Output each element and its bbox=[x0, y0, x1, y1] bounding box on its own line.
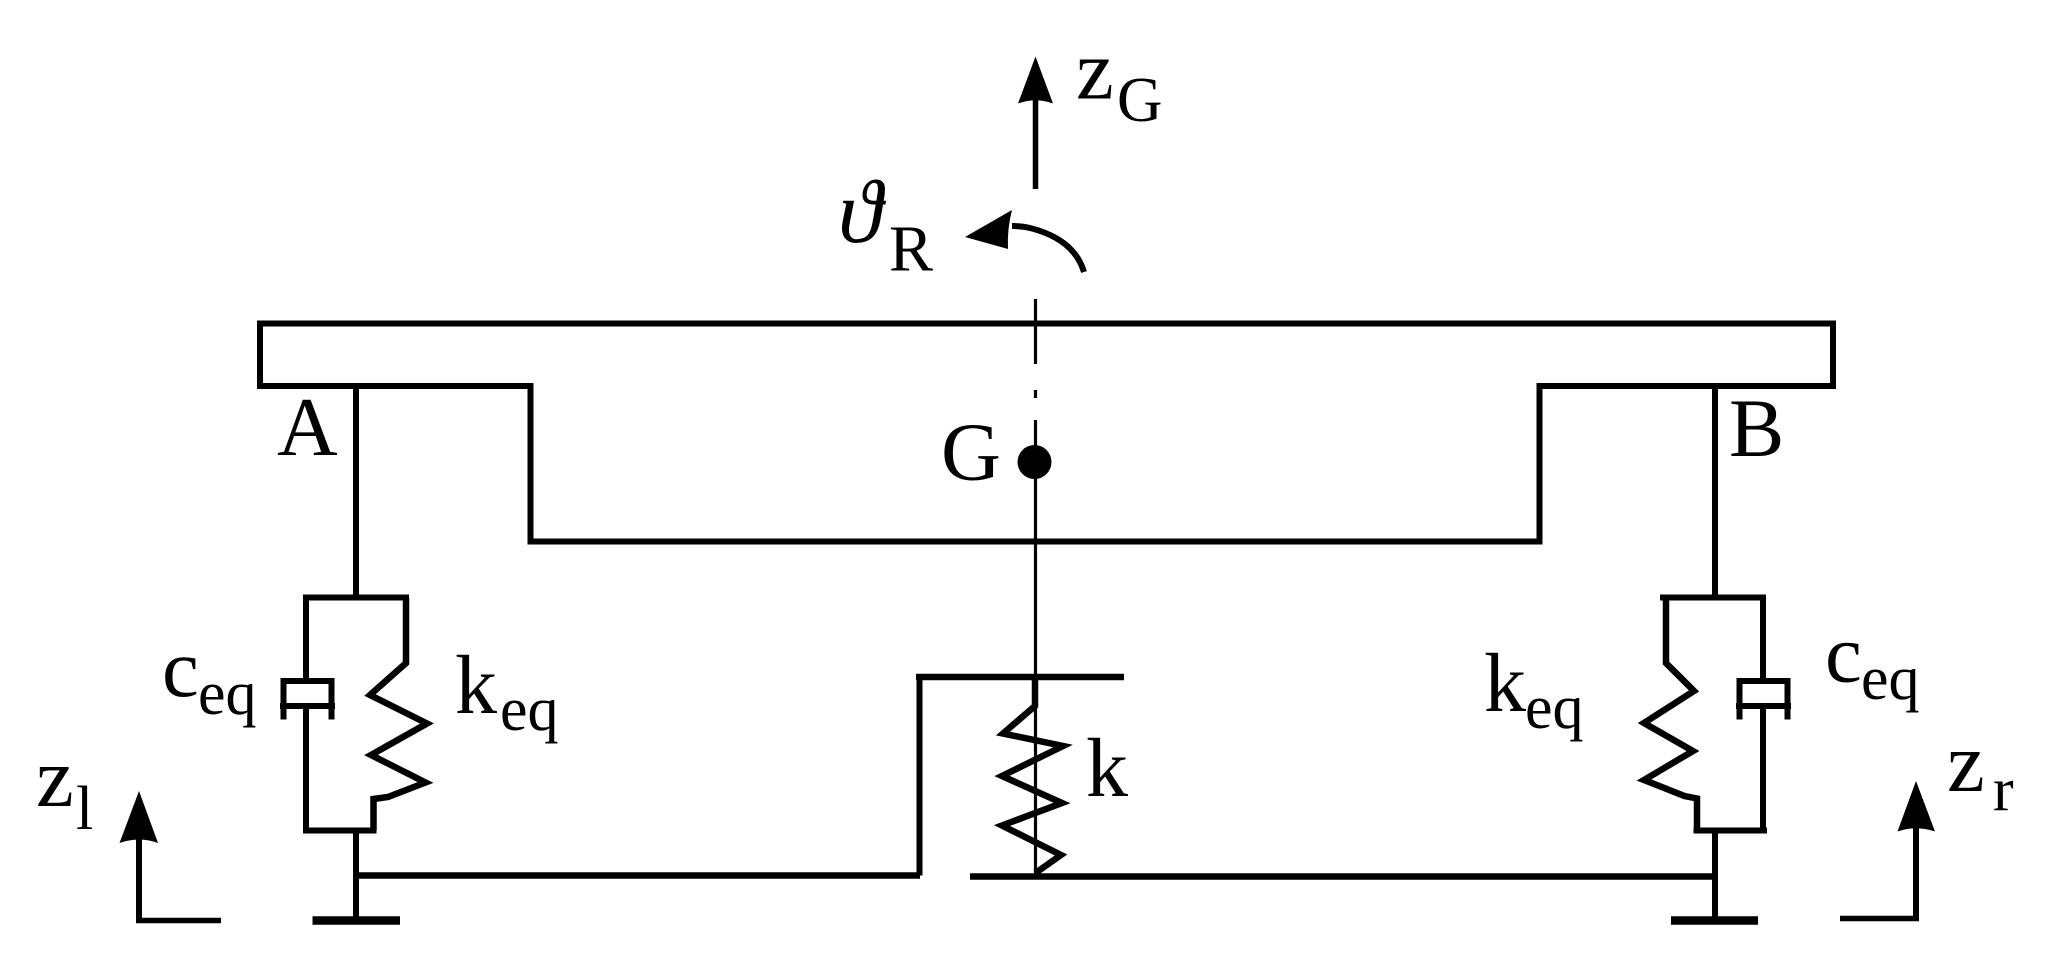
svg-text:k: k bbox=[455, 639, 497, 732]
rotation arrow arc bbox=[1012, 226, 1084, 272]
svg-text:G: G bbox=[941, 406, 1001, 498]
label z_r bbox=[1947, 716, 2014, 824]
left suspension top bar bbox=[303, 595, 409, 601]
right suspension top bar bbox=[1660, 595, 1766, 601]
svg-text:A: A bbox=[277, 381, 338, 474]
label c_eq left bbox=[162, 622, 257, 728]
damper c_eq left cylinder bbox=[284, 681, 332, 720]
rotation arrowhead bbox=[965, 210, 1012, 249]
ground right bbox=[1671, 916, 1758, 925]
svg-text:G: G bbox=[1117, 65, 1163, 135]
svg-text:eq: eq bbox=[1525, 674, 1584, 742]
label k_eq right bbox=[1484, 637, 1584, 742]
ground left bbox=[313, 916, 401, 925]
wire right output rod bbox=[1712, 831, 1718, 918]
wire zG arrow shaft bbox=[1033, 98, 1039, 189]
svg-text:k: k bbox=[1484, 637, 1526, 730]
wire left baseline bbox=[356, 872, 920, 879]
svg-text:z: z bbox=[36, 731, 74, 825]
right suspension bottom bar bbox=[1694, 828, 1768, 834]
label c_eq right bbox=[1825, 608, 1920, 714]
svg-text:B: B bbox=[1729, 382, 1784, 474]
spring k_eq left bbox=[370, 598, 427, 831]
damper c_eq right cylinder bbox=[1740, 681, 1788, 720]
svg-text:ϑ: ϑ bbox=[838, 163, 887, 262]
svg-text:z: z bbox=[1947, 716, 1985, 810]
wire left output rod bbox=[353, 831, 359, 918]
wire right baseline bbox=[970, 873, 1715, 880]
svg-text:eq: eq bbox=[1861, 645, 1920, 713]
label k_eq left bbox=[455, 639, 559, 744]
center spring mount bar bbox=[916, 674, 1124, 681]
damper c_eq right rod bbox=[1760, 598, 1766, 682]
label zG bbox=[1076, 24, 1163, 136]
center spring mount step bbox=[917, 677, 923, 876]
axis z_r bbox=[1840, 828, 1919, 919]
axis z_l bbox=[136, 838, 221, 921]
axis z_l arrowhead bbox=[120, 791, 159, 843]
label thetaR bbox=[838, 163, 933, 286]
svg-text:r: r bbox=[1993, 756, 2014, 824]
svg-text:k: k bbox=[1086, 722, 1128, 815]
damper c_eq right piston plate bbox=[1736, 703, 1791, 709]
svg-text:eq: eq bbox=[500, 676, 559, 744]
wire rod B bbox=[1712, 389, 1718, 595]
damper c_eq right lower rod bbox=[1760, 706, 1766, 831]
svg-text:z: z bbox=[1076, 24, 1114, 118]
left suspension bottom bar bbox=[303, 828, 377, 834]
svg-text:R: R bbox=[889, 213, 933, 286]
damper c_eq left rod bbox=[303, 598, 309, 682]
spring k_eq right bbox=[1644, 598, 1697, 831]
svg-text:c: c bbox=[1825, 608, 1862, 700]
spring k bbox=[1002, 680, 1063, 873]
svg-text:eq: eq bbox=[198, 660, 257, 728]
damper c_eq left piston plate bbox=[280, 703, 335, 709]
G dot bbox=[1018, 445, 1052, 479]
svg-text:l: l bbox=[76, 775, 93, 843]
axis z_r arrowhead bbox=[1898, 781, 1936, 832]
body outline (rigid bar with lower block) bbox=[260, 324, 1833, 542]
zG arrowhead bbox=[1018, 57, 1053, 104]
wire rod A bbox=[353, 389, 359, 595]
svg-text:c: c bbox=[162, 622, 199, 714]
body centerline dash-dot bbox=[1034, 299, 1037, 874]
damper c_eq left lower rod bbox=[303, 706, 309, 831]
label z_l bbox=[36, 731, 93, 843]
